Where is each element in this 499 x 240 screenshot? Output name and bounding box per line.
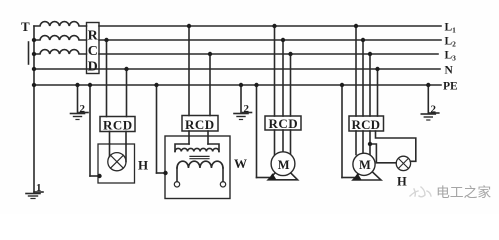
motor M1 frame bond wedge: [268, 173, 277, 180]
RCD4 box: [349, 116, 384, 131]
wire L3 feed group2: [209, 54, 211, 116]
svg-text:M: M: [359, 158, 371, 172]
svg-text:电工之家: 电工之家: [436, 184, 491, 200]
label 2c underline: [430, 112, 439, 114]
transformer winding 1: [34, 22, 87, 26]
svg-text:RCD: RCD: [185, 117, 215, 132]
ground 2a bars: [71, 113, 85, 115]
wire to lamp1 terminal right: [125, 144, 127, 162]
primary feed arms: [175, 144, 189, 152]
wire N feed group4: [377, 69, 379, 116]
wire RCD1 to lamp box right: [125, 132, 127, 145]
wire L3 feed group4: [369, 54, 371, 116]
motor M1 pedestal: [268, 171, 297, 179]
branch phase wire to lamp H2 left: [370, 144, 396, 163]
svg-text:D: D: [88, 60, 98, 75]
node: winding3 to riser: [32, 52, 36, 56]
node: ground2b on PE: [239, 83, 243, 87]
PE drop group4: [341, 85, 343, 178]
svg-text:H: H: [138, 158, 148, 173]
svg-text:2: 2: [431, 104, 437, 116]
svg-text:C: C: [88, 44, 98, 59]
node: group3 PE drop: [254, 83, 258, 87]
node: group1 N tap: [124, 67, 128, 71]
label 1 underline: [35, 191, 44, 193]
svg-text:L3: L3: [445, 50, 457, 63]
PE drop group1: [89, 85, 91, 176]
bus L2: [99, 39, 441, 41]
PE drop group3: [256, 85, 258, 178]
svg-text:1: 1: [36, 182, 42, 194]
ground 1 bars: [26, 193, 40, 195]
node: group3 L2 tap: [281, 38, 285, 42]
ground 2b bars: [234, 113, 248, 115]
node: group1 PE drop: [88, 83, 92, 87]
PE drop group2: [156, 85, 158, 173]
bus N: [34, 68, 440, 70]
node: welder enclosure PE: [163, 171, 167, 175]
wires RCD3 to motor1: [274, 130, 276, 155]
label 2a underline: [79, 112, 88, 114]
wire L2 feed group4: [362, 40, 364, 116]
svg-text:R: R: [88, 29, 99, 44]
node: N to riser: [32, 67, 36, 71]
motor M2 pedestal: [353, 172, 381, 180]
svg-text:T: T: [21, 19, 30, 34]
welder core: [190, 155, 209, 157]
label 2b underline: [243, 112, 252, 114]
node: PE to riser: [32, 83, 36, 87]
ground 2b stem: [240, 85, 242, 113]
node: group3 L1 tap: [272, 24, 276, 28]
svg-text:PE: PE: [443, 81, 458, 93]
bus PE: [34, 84, 441, 86]
node: group4 PE drop: [340, 83, 344, 87]
svg-text:2: 2: [80, 103, 86, 115]
RCD3 box: [265, 116, 301, 130]
welder secondary winding: [177, 161, 223, 168]
wire to lamp1 terminal left: [109, 144, 111, 156]
wire RCD1 to lamp box left: [109, 132, 111, 145]
bus L3: [99, 53, 438, 55]
wire L1 feed group4: [355, 26, 357, 116]
ground 2c stem: [427, 85, 429, 114]
svg-text:RCD: RCD: [352, 117, 381, 132]
svg-text:L2: L2: [445, 36, 457, 49]
transformer winding 3: [34, 50, 87, 54]
node: winding2 to riser: [32, 38, 36, 42]
node: lamp H2 branch tap: [368, 142, 372, 146]
node: group1 L2 tap: [104, 38, 108, 42]
node: group4 L3 tap: [368, 52, 372, 56]
N out wire to lamp H2 right: [376, 131, 416, 161]
wire RCD2 out left: [188, 131, 190, 144]
ground 1 stem: [33, 192, 35, 193]
svg-text:M: M: [278, 158, 290, 172]
lamp H2: [396, 156, 410, 170]
bus L1: [99, 25, 441, 27]
wire L2 feed group3: [282, 40, 284, 116]
secondary terminal wires: [176, 168, 178, 182]
RCD1 box: [100, 117, 135, 132]
node: group3 L3 tap: [288, 52, 292, 56]
welder primary winding: [175, 148, 219, 151]
node: group4 N tap: [375, 67, 379, 71]
wire RCD2 out right: [207, 131, 209, 144]
svg-text:RCD: RCD: [103, 118, 133, 133]
wire L1 feed group3: [274, 26, 276, 116]
node: ground2c on PE: [426, 83, 430, 87]
RCD2 box: [182, 116, 218, 132]
svg-text:2: 2: [244, 103, 250, 115]
node: group2 PE drop: [154, 83, 158, 87]
motor M1: [271, 152, 295, 176]
transformer T bar: [28, 42, 30, 64]
watermark logo: [410, 187, 431, 197]
node: group4 L2 tap: [361, 38, 365, 42]
wire L3 feed group3: [290, 54, 292, 116]
ground 2c bars: [421, 113, 435, 115]
motor M2: [353, 153, 375, 175]
node: group2 L1 tap: [187, 24, 191, 28]
svg-text:L1: L1: [445, 22, 457, 35]
node: group2 L3 tap: [208, 52, 212, 56]
terminal b: [220, 182, 225, 187]
lamp H1: [108, 153, 126, 171]
terminal a: [174, 182, 179, 187]
welder W enclosure: [165, 136, 230, 199]
lamp H1 enclosure: [98, 144, 135, 183]
svg-text:RCD: RCD: [269, 116, 299, 131]
wires RCD4 to motor2: [355, 131, 357, 155]
main RCD box: [87, 23, 100, 74]
node: group4 L1 tap: [354, 24, 358, 28]
wire N feed group1: [126, 69, 128, 117]
ground 2a stem: [77, 85, 79, 113]
transformer T bus (neutral riser): [33, 26, 35, 192]
node: lamp1 enclosure PE: [97, 174, 101, 178]
svg-text:H: H: [397, 175, 407, 189]
wire L2 feed group1: [106, 40, 108, 117]
wire L1 feed group2: [188, 26, 190, 116]
node: ground2a on PE: [75, 83, 79, 87]
svg-text:W: W: [234, 156, 247, 171]
transformer winding 2: [34, 36, 87, 40]
motor M2 frame bond wedge: [353, 173, 362, 180]
svg-text:N: N: [445, 65, 454, 77]
